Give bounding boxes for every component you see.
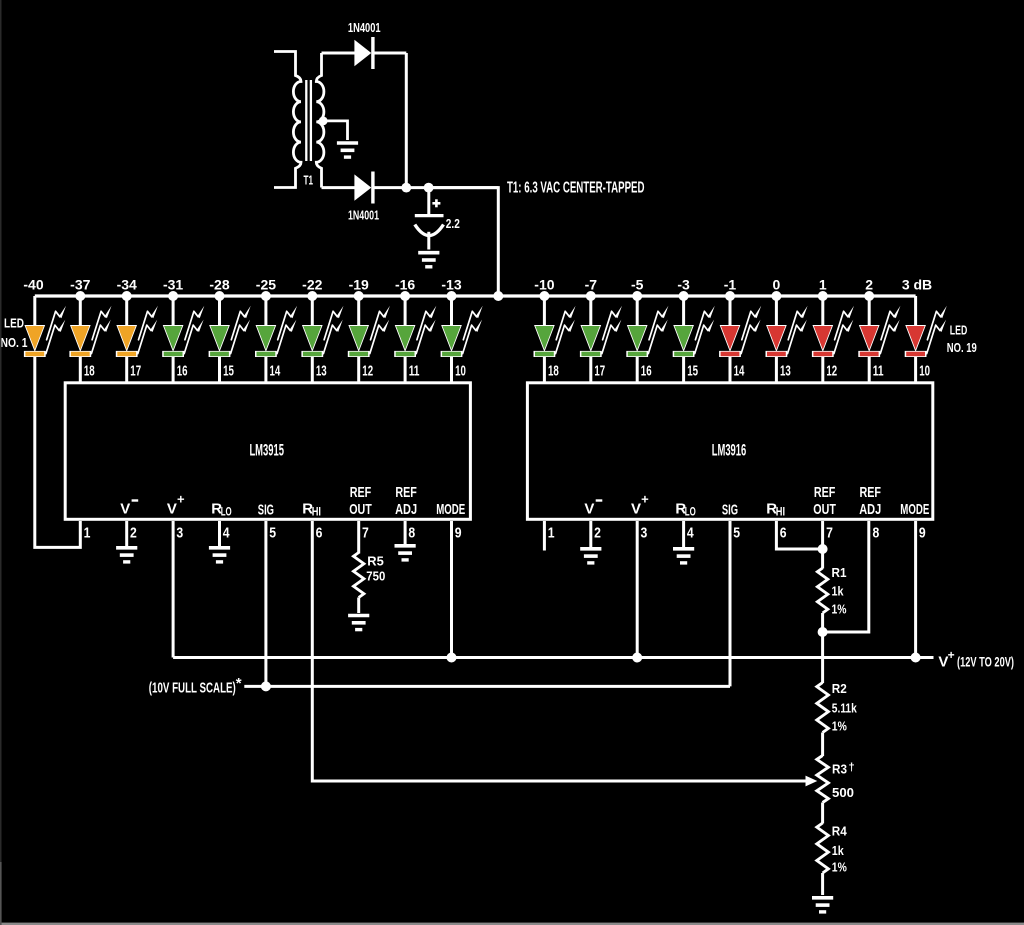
U1 pin 7 stub: [357, 521, 360, 554]
svg-text:6: 6: [316, 525, 323, 542]
svg-text:V: V: [120, 501, 130, 518]
U2 label RLO: [675, 501, 695, 519]
U1 pin 3 V+ wire: [172, 521, 175, 658]
U1 label SIG: [258, 502, 274, 519]
LED 7 (-22): [301, 296, 343, 383]
svg-text:750: 750: [366, 569, 385, 584]
svg-text:-25: -25: [256, 277, 276, 293]
U1 label REF ADJ: [395, 484, 417, 518]
svg-text:-16: -16: [395, 277, 415, 293]
svg-text:-40: -40: [23, 277, 43, 293]
capacitor C1 2.2 plus sign: [432, 199, 440, 207]
dB scale labels: [23, 277, 932, 293]
label R4: [832, 824, 848, 839]
label 5.11k: [832, 701, 858, 716]
svg-text:-34: -34: [117, 277, 137, 293]
LED 16 (0): [766, 296, 808, 383]
U1 top pin numbers 18-10: [84, 363, 466, 380]
junction C1 node: [424, 183, 434, 193]
wire R3 to R4: [821, 803, 824, 824]
svg-text:1: 1: [84, 525, 91, 542]
wire D1 cathode to right rail: [373, 52, 406, 55]
LED 1 (-40): [24, 296, 80, 547]
op-amp U1 LM3915 box: [65, 383, 470, 520]
ground (C1): [418, 253, 439, 267]
svg-text:15: 15: [687, 363, 698, 380]
label T1: [304, 173, 314, 188]
svg-text:V: V: [584, 501, 594, 518]
svg-text:1: 1: [819, 277, 827, 293]
wire C1 to ground: [427, 232, 430, 250]
LED 8 (-19): [348, 296, 390, 383]
svg-text:-31: -31: [163, 277, 183, 293]
U1 label MODE: [436, 501, 465, 518]
svg-text:NO. 1: NO. 1: [1, 335, 28, 350]
svg-text:+: +: [641, 492, 649, 507]
label R3: [832, 762, 855, 777]
svg-text:15: 15: [223, 363, 234, 380]
svg-text:REF: REF: [350, 484, 372, 501]
svg-text:-10: -10: [534, 277, 554, 293]
svg-text:T1: T1: [304, 173, 314, 188]
U2 label SIG: [722, 502, 738, 519]
U2 pin 3 V+ wire: [636, 521, 639, 658]
svg-text:-28: -28: [209, 277, 229, 293]
ground (U1 pin 4): [209, 548, 230, 562]
ground (center tap): [337, 143, 358, 157]
svg-text:V: V: [631, 501, 641, 518]
svg-text:1: 1: [548, 525, 555, 542]
LED 3 (-34): [116, 296, 158, 383]
svg-text:5: 5: [269, 525, 276, 542]
U2 pin 5 SIG wire: [729, 521, 732, 686]
U1 pin 6 RHI wire: [312, 521, 806, 781]
label V+ (12V TO 20V): [938, 648, 1014, 671]
label R5: [367, 554, 384, 569]
label 1N4001 (top): [348, 20, 381, 35]
U1 pin 8 stub: [404, 521, 407, 545]
svg-text:11: 11: [873, 363, 884, 380]
U2 pin 1 stub: [543, 521, 546, 551]
svg-text:V: V: [167, 501, 177, 518]
svg-text:OUT: OUT: [349, 501, 372, 518]
label 1N4001 (bottom): [348, 208, 379, 223]
junction U1 pin 5 / signal: [261, 681, 271, 691]
op-amp U2 LM3916 box: [527, 383, 932, 520]
svg-text:1k: 1k: [832, 843, 845, 858]
wire right vertical (rectifier output): [405, 53, 408, 188]
junction D1/D2 outputs: [401, 183, 411, 193]
LED 11 (-10): [534, 296, 576, 383]
svg-text:-22: -22: [302, 277, 322, 293]
svg-text:MODE: MODE: [900, 501, 929, 518]
svg-text:10: 10: [919, 363, 930, 380]
wire C1 node down to plate: [427, 188, 430, 214]
LED 13 (-5): [626, 296, 668, 383]
label 2.2: [446, 216, 460, 231]
transformer T1 secondary winding: [316, 53, 324, 188]
svg-text:REF: REF: [859, 484, 881, 501]
junction pin6/pin7 (U2): [818, 544, 828, 554]
U1 pin 4 stub: [218, 521, 221, 546]
U2 pin 7 wire to R1: [821, 521, 824, 569]
svg-text:1%: 1%: [832, 602, 847, 617]
svg-text:R1: R1: [832, 565, 847, 580]
wire secondary bottom to D2 anode: [322, 186, 355, 189]
ground (R5): [348, 616, 369, 630]
svg-text:R4: R4: [832, 824, 848, 839]
resistor R1 1k: [817, 568, 827, 613]
LED anode bus: [35, 294, 916, 297]
ground (U2 pin 4): [673, 549, 694, 563]
wire junction to REF ADJ (U2 pin 8): [823, 521, 869, 632]
svg-text:SIG: SIG: [258, 502, 274, 519]
svg-text:0: 0: [773, 277, 781, 293]
svg-text:500: 500: [832, 785, 854, 800]
label 1% (R2): [832, 719, 847, 734]
svg-text:LM3916: LM3916: [712, 441, 747, 460]
svg-text:2: 2: [130, 525, 137, 542]
svg-text:ADJ: ADJ: [859, 501, 881, 518]
svg-text:3 dB: 3 dB: [902, 277, 932, 293]
svg-text:1%: 1%: [832, 860, 847, 875]
svg-text:1N4001: 1N4001: [348, 20, 381, 35]
svg-text:4: 4: [687, 525, 694, 542]
svg-text:MODE: MODE: [436, 501, 465, 518]
svg-text:*: *: [236, 675, 242, 692]
svg-text:1k: 1k: [832, 584, 845, 599]
label 1% (R4): [832, 860, 847, 875]
U2 label RHI: [766, 501, 785, 519]
svg-text:9: 9: [919, 525, 926, 542]
label 1% (R1): [832, 602, 847, 617]
resistor R2 5.11k: [817, 683, 829, 733]
svg-text:R2: R2: [832, 681, 847, 696]
LED 14 (-3): [673, 296, 715, 383]
wire R4 to ground: [821, 873, 824, 895]
label LED NO. 1: [1, 316, 28, 351]
svg-text:R5: R5: [367, 554, 384, 569]
svg-text:7: 7: [826, 525, 833, 542]
svg-text:16: 16: [641, 363, 652, 380]
U2 pin 2 stub: [589, 521, 592, 547]
svg-text:HI: HI: [776, 505, 785, 519]
wire R5 to ground: [357, 598, 360, 614]
label R2: [832, 681, 847, 696]
svg-text:3: 3: [641, 525, 648, 542]
svg-text:14: 14: [270, 363, 281, 380]
label T1: 6.3 VAC CENTER-TAPPED: [507, 180, 645, 197]
svg-text:18: 18: [548, 363, 559, 380]
junction U1 pin 9 / rail: [447, 653, 457, 663]
transformer T1 primary winding: [274, 52, 301, 188]
ground (R4): [812, 898, 833, 912]
U2 top pin numbers 18-10: [548, 363, 930, 380]
svg-text:3: 3: [176, 525, 183, 542]
wire secondary top to D1 anode: [322, 52, 355, 55]
svg-text:-37: -37: [70, 277, 90, 293]
svg-text:REF: REF: [395, 484, 417, 501]
LED 18 (2): [858, 296, 900, 383]
svg-text:8: 8: [408, 525, 415, 542]
LED 9 (-16): [394, 296, 436, 383]
U2 pin 9 MODE wire: [914, 521, 917, 658]
U1 pin 2 stub: [125, 521, 128, 546]
transformer T1 core: [306, 80, 311, 161]
U2 label V-: [584, 501, 602, 518]
svg-text:1%: 1%: [832, 719, 847, 734]
wire R2 to R3: [821, 733, 824, 757]
svg-text:6: 6: [780, 525, 787, 542]
junction feed/bus: [493, 291, 503, 301]
bus junction dots: [75, 291, 874, 301]
LED 15 (-1): [719, 296, 761, 383]
svg-text:17: 17: [130, 363, 141, 380]
label 750: [366, 569, 385, 584]
ground (U1 pin 2): [116, 548, 137, 562]
svg-text:7: 7: [362, 525, 369, 542]
svg-text:OUT: OUT: [813, 501, 836, 518]
svg-text:(10V FULL SCALE): (10V FULL SCALE): [149, 680, 236, 697]
svg-text:+: +: [177, 492, 185, 507]
svg-text:-5: -5: [631, 277, 644, 293]
LED 4 (-31): [162, 296, 204, 383]
label R1: [832, 565, 847, 580]
svg-text:18: 18: [84, 363, 95, 380]
svg-text:-19: -19: [349, 277, 369, 293]
V+ rail: [173, 656, 933, 659]
label 1k: [832, 584, 845, 599]
svg-text:LED: LED: [950, 323, 968, 338]
label 1k (R4): [832, 843, 845, 858]
U1 pin 5 SIG wire: [264, 521, 267, 686]
junction R1/R2/REF ADJ: [818, 627, 828, 637]
wiper arrowhead into R3: [806, 776, 818, 787]
svg-text:13: 13: [780, 363, 791, 380]
U2 pin 6 RHI wire: [776, 521, 822, 549]
svg-text:-1: -1: [724, 277, 737, 293]
svg-text:LO: LO: [221, 505, 232, 519]
svg-text:SIG: SIG: [722, 502, 738, 519]
U2 label REF OUT: [813, 484, 836, 518]
junction U2 pin 3 / rail: [632, 653, 642, 663]
wire R1 bottom to junction: [821, 613, 824, 632]
svg-text:10: 10: [455, 363, 466, 380]
center-tap junction: [319, 117, 328, 126]
svg-text:NO. 19: NO. 19: [947, 340, 977, 355]
svg-text:-3: -3: [677, 277, 690, 293]
svg-text:9: 9: [455, 525, 462, 542]
svg-text:LED: LED: [4, 316, 24, 331]
svg-text:HI: HI: [312, 505, 321, 519]
U2 label MODE: [900, 501, 929, 518]
ground (U1 pin 8): [395, 546, 416, 560]
svg-text:2.2: 2.2: [446, 216, 460, 231]
U2 label REF ADJ: [859, 484, 881, 518]
wire junction down to R2: [821, 632, 824, 683]
wire V-LED feed: [429, 188, 499, 296]
junction U2 pin 9 / rail: [911, 653, 921, 663]
svg-text:17: 17: [594, 363, 605, 380]
LED 6 (-25): [255, 296, 297, 383]
svg-text:T1: 6.3 VAC CENTER-TAPPED: T1: 6.3 VAC CENTER-TAPPED: [507, 180, 645, 197]
svg-text:-7: -7: [585, 277, 598, 293]
svg-text:16: 16: [177, 363, 188, 380]
signal line (10V full scale): [244, 685, 730, 688]
svg-text:ADJ: ADJ: [395, 501, 417, 518]
U2 bottom pin numbers 1-9: [548, 525, 926, 542]
svg-text:LO: LO: [685, 505, 696, 519]
LED 10 (-13): [441, 296, 483, 383]
diode D1 1N4001 (top): [354, 37, 373, 69]
svg-text:14: 14: [734, 363, 745, 380]
svg-text:11: 11: [409, 363, 420, 380]
label 500: [832, 785, 854, 800]
svg-text:8: 8: [873, 525, 880, 542]
svg-text:†: †: [849, 762, 855, 774]
LED 5 (-28): [209, 296, 251, 383]
U1 label REF OUT: [349, 484, 372, 518]
svg-text:-13: -13: [441, 277, 461, 293]
svg-text:REF: REF: [814, 484, 836, 501]
U1 label V-: [120, 501, 138, 518]
LED 19 (3 dB): [905, 296, 947, 383]
LED 17 (1): [812, 296, 854, 383]
resistor R4 1k: [817, 823, 829, 873]
svg-text:12: 12: [826, 363, 837, 380]
ground (U2 pin 2): [580, 549, 601, 563]
svg-text:4: 4: [223, 525, 230, 542]
U1 label V+: [167, 492, 185, 518]
svg-text:+: +: [948, 648, 955, 662]
svg-text:2: 2: [865, 277, 873, 293]
svg-text:(12V TO 20V): (12V TO 20V): [957, 654, 1014, 670]
svg-text:2: 2: [594, 525, 601, 542]
wire D2 cathode to C1 node: [373, 186, 498, 189]
U1 label RHI: [302, 501, 321, 519]
U1 label RLO: [211, 501, 231, 519]
LED 2 (-37): [69, 296, 111, 383]
U2 label V+: [631, 492, 649, 518]
svg-text:R3: R3: [832, 762, 847, 777]
U1 bottom pin numbers 1-9: [84, 525, 462, 542]
svg-text:5: 5: [733, 525, 740, 542]
wire center tap to ground: [323, 121, 347, 140]
capacitor C1 2.2: [415, 216, 444, 236]
svg-text:13: 13: [316, 363, 327, 380]
svg-text:12: 12: [362, 363, 373, 380]
label (10V FULL SCALE)*: [149, 675, 242, 697]
potentiometer R3 500: [817, 756, 829, 803]
LED 12 (-7): [580, 296, 622, 383]
svg-text:LM3915: LM3915: [249, 441, 284, 460]
svg-text:1N4001: 1N4001: [348, 208, 379, 223]
svg-text:5.11k: 5.11k: [832, 701, 858, 716]
label LED NO. 19: [947, 323, 977, 356]
U1 pin 9 MODE wire: [450, 521, 453, 658]
label LM3916: [712, 441, 747, 460]
diode D2 1N4001 (bottom): [354, 172, 373, 204]
U2 pin 4 stub: [682, 521, 685, 547]
label LM3915: [249, 441, 284, 460]
resistor R5 750: [354, 553, 364, 598]
